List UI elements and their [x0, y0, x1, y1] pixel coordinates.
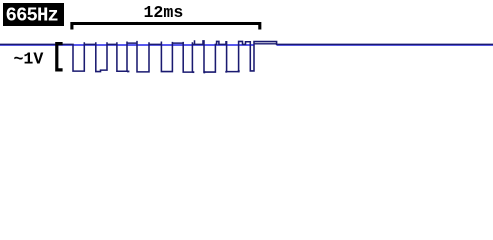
wire waveform trace — [0, 40, 493, 72]
bracket amplitude [ — [57, 44, 63, 70]
bracket 12ms span — [72, 24, 260, 30]
svg-text:12ms: 12ms — [143, 3, 183, 22]
wire baseline bright blue left part — [0, 44, 254, 46]
node valley7 foot — [203, 71, 205, 73]
wire plateau under-line — [254, 43, 277, 45]
node valley3 foot — [127, 70, 129, 72]
label 665Hz black box — [3, 3, 64, 26]
svg-text:665Hz: 665Hz — [6, 5, 59, 27]
wire baseline bright blue right part — [277, 44, 493, 46]
node valley6 foot — [192, 71, 194, 73]
svg-text:~1V: ~1V — [13, 50, 43, 69]
node valley8 feet — [225, 71, 227, 73]
